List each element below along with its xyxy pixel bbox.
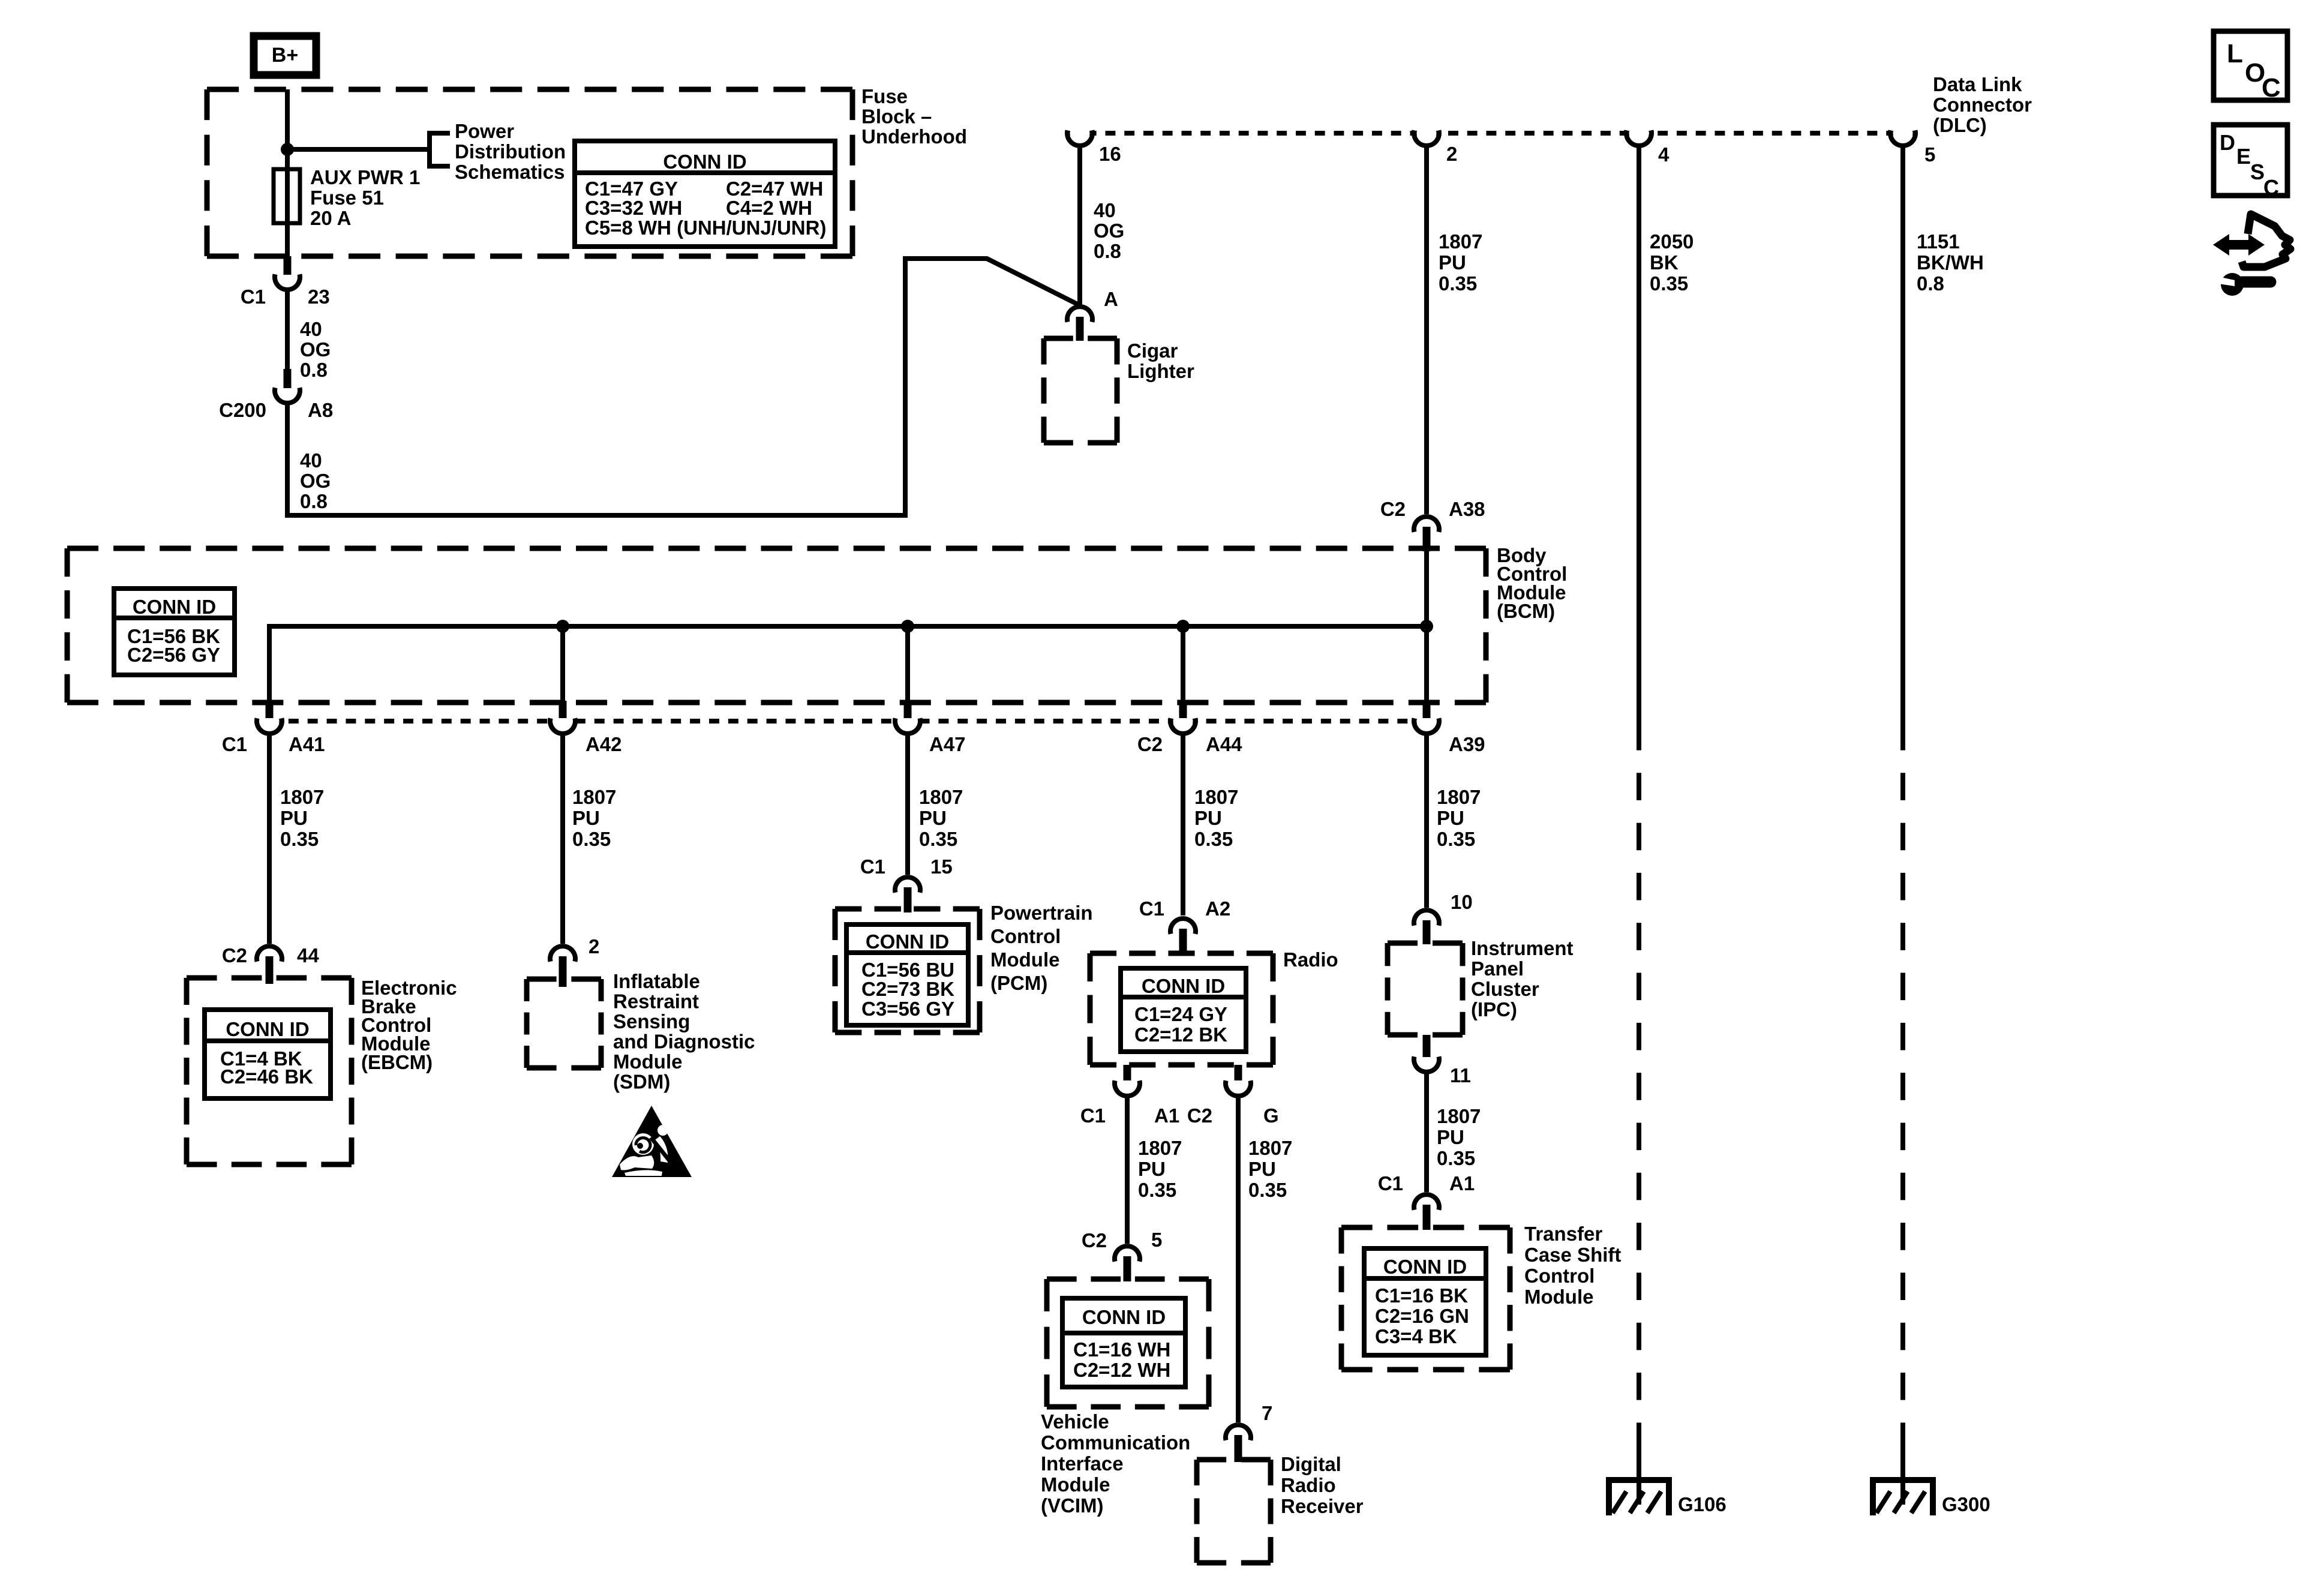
label Inflatable Restraint Sensing and Diagnostic Module (SDM) [613,970,755,1093]
label 40 OG 0.8 lower [300,449,331,512]
label 40 OG 0.8 upper [300,318,331,381]
svg-text:2: 2 [588,935,599,957]
data link connector face dotted line [1067,131,1915,136]
label 1807 PU 0.35 to DRR [1248,1137,1292,1201]
table CONN ID BCM [114,589,235,675]
table CONN ID EBCM [205,1010,331,1098]
svg-text:0.35: 0.35 [1194,828,1233,850]
svg-text:(SDM): (SDM) [613,1071,670,1093]
label Instrument Panel Cluster (IPC) [1471,937,1574,1020]
svg-text:1807: 1807 [1439,230,1482,253]
svg-text:0.8: 0.8 [300,490,328,512]
connector pin A cigar lighter [1067,288,1118,341]
instrument panel cluster dashed box [1388,943,1463,1035]
connector pin A42 [550,701,622,755]
connector pin 11 IPC out [1414,1035,1471,1086]
svg-text:L: L [2227,39,2243,68]
connector pin 7 DRR [1226,1402,1272,1462]
svg-text:23: 23 [308,286,330,308]
svg-text:Radio: Radio [1281,1474,1336,1496]
table CONN ID fuse block [575,141,835,247]
svg-text:PU: PU [919,807,947,829]
svg-text:Digital: Digital [1281,1453,1341,1475]
svg-text:1807: 1807 [1138,1137,1182,1159]
svg-text:C1: C1 [241,286,266,308]
digital radio receiver dashed box [1197,1460,1271,1563]
svg-text:PU: PU [1439,251,1466,274]
wire BCM drop A47 [905,626,910,701]
svg-text:CONN ID: CONN ID [1383,1256,1467,1278]
svg-text:CONN ID: CONN ID [226,1018,309,1040]
svg-text:Restraint: Restraint [613,990,699,1013]
connector C1 pin 23 [241,256,330,308]
svg-text:D: D [2220,130,2235,155]
cigar lighter dashed box [1044,338,1117,443]
connector C1 pin A1 radio out [1080,1065,1179,1127]
label 1807 PU 0.35 col IPC [1437,786,1481,850]
svg-text:7: 7 [1262,1402,1272,1424]
wire 40 OG routed to cigar lighter [287,259,1080,515]
svg-text:Distribution: Distribution [455,140,566,163]
wire 40 OG 0.8 pin 16 [1077,146,1082,305]
svg-text:C2=46 BK: C2=46 BK [220,1065,313,1088]
svg-text:A44: A44 [1206,733,1242,755]
wire 1807 PU 0.35 to VCIM [1125,1097,1130,1244]
svg-text:0.35: 0.35 [1437,1147,1475,1169]
label Powertrain Control Module (PCM) [990,902,1093,994]
wire 1807 PU 0.35 to DRR [1236,1097,1241,1422]
svg-text:Module: Module [990,948,1059,971]
fuse block - underhood dashed box [207,89,852,256]
svg-text:AUX PWR 1: AUX PWR 1 [310,166,420,188]
transfer case shift control module dashed box [1341,1227,1510,1370]
svg-text:2: 2 [1446,143,1457,165]
svg-text:1807: 1807 [280,786,324,808]
svg-text:Transfer: Transfer [1524,1223,1602,1245]
svg-text:A47: A47 [929,733,966,755]
BCM connector face dotted line [269,719,1427,724]
label 1807 PU 0.35 col SDM [572,786,616,850]
svg-text:Powertrain: Powertrain [990,902,1093,924]
svg-text:C3=4 BK: C3=4 BK [1375,1325,1457,1347]
svg-text:OG: OG [300,338,331,361]
svg-text:0.8: 0.8 [300,359,328,381]
svg-text:0.35: 0.35 [280,828,319,850]
svg-text:1151: 1151 [1917,230,1960,253]
svg-text:Cigar: Cigar [1127,340,1178,362]
svg-text:C2: C2 [1187,1104,1212,1127]
svg-text:0.8: 0.8 [1917,272,1944,295]
wire branch to power distribution schematics [287,147,428,152]
connector pin 10 IPC [1414,891,1473,944]
inflatable restraint SDM dashed box [527,979,601,1068]
bracket power distribution schematics [430,133,450,166]
svg-text:A8: A8 [308,399,333,421]
connector C2 pin A38 BCM [1380,498,1485,551]
svg-text:S: S [2250,160,2265,184]
svg-text:C1: C1 [1378,1172,1403,1194]
svg-text:0.35: 0.35 [1439,272,1477,295]
svg-text:2050: 2050 [1650,230,1694,253]
vehicle communication interface module dashed box [1047,1279,1209,1407]
connector C2 pin G radio out [1187,1065,1279,1127]
icon connector end view with wrench [2213,214,2290,296]
svg-text:Fuse 51: Fuse 51 [310,187,384,209]
connector C1 pin A2 Radio [1139,897,1230,956]
icon SRS caution triangle [612,1106,692,1177]
table CONN ID PCM [846,924,968,1025]
label 1151 BK/WH 0.8 [1917,230,1984,295]
svg-text:A1: A1 [1449,1172,1475,1194]
svg-text:C1: C1 [222,733,247,755]
junction node to power distribution [281,143,294,156]
label fuse AUX PWR 1 [310,166,420,229]
svg-text:PU: PU [1437,1126,1464,1148]
svg-text:C1: C1 [1139,897,1164,920]
svg-text:11: 11 [1450,1064,1471,1086]
svg-text:0.8: 0.8 [1094,240,1121,262]
svg-text:15: 15 [930,855,953,878]
svg-text:Underhood: Underhood [861,125,967,148]
svg-text:A41: A41 [289,733,325,755]
label Digital Radio Receiver [1281,1453,1364,1517]
svg-text:Case Shift: Case Shift [1524,1244,1621,1266]
label Body Control Module (BCM) [1497,544,1567,622]
connector pin A47 [895,701,966,755]
svg-text:Fuse: Fuse [861,85,908,107]
svg-text:1807: 1807 [1248,1137,1292,1159]
icon LOC box [2214,31,2287,103]
svg-text:44: 44 [297,944,319,966]
wire 1807 PU 0.35 to TCSCM [1424,1072,1429,1192]
wire BCM internal bus [269,626,1427,701]
electronic brake control module dashed box [187,978,352,1164]
svg-text:Cluster: Cluster [1471,978,1539,1000]
svg-text:C1=16 WH: C1=16 WH [1073,1338,1170,1361]
wire 1807 PU 0.35 col EBCM [267,734,272,944]
svg-text:Schematics: Schematics [455,161,565,183]
svg-text:B+: B+ [272,44,298,67]
radio dashed box [1090,953,1273,1065]
svg-text:0.35: 0.35 [1248,1179,1287,1201]
svg-text:PU: PU [1194,807,1222,829]
wire 1151 BK/WH 0.8 pin 5 [1900,146,1905,1505]
svg-text:C1=16 BK: C1=16 BK [1375,1284,1468,1307]
label 1807 PU 0.35 col Radio [1194,786,1238,850]
svg-text:and Diagnostic: and Diagnostic [613,1031,755,1053]
svg-text:(IPC): (IPC) [1471,998,1517,1020]
svg-text:CONN ID: CONN ID [1142,975,1225,997]
svg-text:Inflatable: Inflatable [613,970,700,992]
svg-text:C200: C200 [219,399,266,421]
svg-text:(EBCM): (EBCM) [361,1051,433,1073]
label Data Link Connector (DLC) [1933,73,2032,136]
label Radio [1283,948,1338,971]
svg-text:Sensing: Sensing [613,1010,690,1032]
svg-text:40: 40 [300,318,322,340]
svg-text:Power: Power [455,120,514,142]
svg-text:Panel: Panel [1471,957,1524,980]
svg-text:C5=8 WH (UNH/UNJ/UNR): C5=8 WH (UNH/UNJ/UNR) [585,217,826,239]
svg-text:Control: Control [990,925,1061,947]
svg-text:C2=12 BK: C2=12 BK [1134,1023,1227,1046]
table CONN ID VCIM [1062,1298,1185,1387]
connector C1 pin A41 [222,701,325,755]
wire BCM drop A44 [1181,626,1185,701]
wire B+ feed through fuse [285,89,290,256]
svg-text:0.35: 0.35 [1138,1179,1176,1201]
label Electronic Brake Control Module (EBCM) [361,977,457,1073]
svg-text:CONN ID: CONN ID [866,930,949,953]
wire 2050 BK 0.35 pin 4 [1637,146,1641,1505]
svg-text:5: 5 [1151,1229,1162,1251]
label 40 OG 0.8 pin 16 [1094,199,1124,262]
svg-text:Lighter: Lighter [1127,360,1194,382]
svg-text:PU: PU [1248,1158,1276,1180]
svg-text:C3=56 GY: C3=56 GY [861,998,954,1020]
svg-text:20 A: 20 A [310,207,351,229]
svg-text:Block –: Block – [861,106,932,128]
svg-text:Interface: Interface [1041,1452,1124,1475]
table CONN ID TCSCM [1364,1248,1486,1355]
DLC connector pin 2 [1414,124,1457,166]
svg-text:C1: C1 [1080,1104,1106,1127]
ground G106 [1606,1477,1727,1515]
svg-text:CONN ID: CONN ID [663,151,746,173]
svg-text:BK: BK [1650,251,1679,274]
label Fuse Block - Underhood [861,85,967,148]
svg-text:Radio: Radio [1283,948,1338,971]
svg-text:OG: OG [1094,220,1124,242]
svg-text:Connector: Connector [1933,94,2032,116]
svg-text:A: A [1104,288,1118,310]
label 1807 PU 0.35 col EBCM [280,786,324,850]
fuse AUX PWR 1 Fuse 51 20 A [274,169,300,223]
svg-text:C2=12 WH: C2=12 WH [1073,1359,1170,1381]
wire BCM drop A42 [560,626,565,701]
svg-text:C1=24 GY: C1=24 GY [1134,1003,1227,1025]
svg-text:OG: OG [300,470,331,492]
wire 1807 PU 0.35 col IPC [1424,734,1429,908]
label 2050 BK 0.35 [1650,230,1694,295]
svg-text:5: 5 [1924,143,1935,166]
connector pin A39 [1414,701,1485,755]
svg-text:CONN ID: CONN ID [1082,1306,1166,1328]
svg-text:1807: 1807 [1437,1105,1481,1127]
svg-text:Module: Module [1041,1473,1110,1496]
svg-text:PU: PU [1437,807,1464,829]
power node B+ [254,36,316,75]
connector C1 pin A1 TCSCM [1378,1172,1475,1230]
svg-text:G106: G106 [1678,1493,1727,1515]
svg-text:1807: 1807 [919,786,963,808]
svg-text:10: 10 [1451,891,1473,913]
wire 1807 PU 0.35 col PCM [905,734,910,875]
svg-text:A2: A2 [1205,897,1230,920]
junction dots BCM bus [556,620,1433,633]
svg-text:PU: PU [1138,1158,1166,1180]
svg-text:(DLC): (DLC) [1933,114,1987,136]
svg-text:C4=2 WH: C4=2 WH [726,197,812,219]
body control module dashed box [67,548,1486,703]
ground G300 [1870,1477,1990,1515]
svg-text:C2=73 BK: C2=73 BK [861,978,954,1000]
svg-text:E: E [2236,144,2251,169]
svg-text:PU: PU [572,807,600,829]
wire 1807 PU 0.35 pin 2 [1424,146,1429,514]
svg-text:Module: Module [613,1050,682,1073]
wire 40 OG 0.8 upper segment [285,290,290,370]
label Transfer Case Shift Control Module [1524,1223,1621,1308]
svg-text:C2: C2 [222,944,247,966]
wire BCM A38 to A39 [1424,549,1429,701]
connector C200 pin A8 [219,369,333,421]
svg-text:G300: G300 [1942,1493,1990,1515]
label Cigar Lighter [1127,340,1194,382]
svg-text:G: G [1263,1104,1279,1127]
label 1807 PU 0.35 to VCIM [1138,1137,1182,1201]
svg-text:C2: C2 [1082,1229,1107,1251]
svg-text:(VCIM): (VCIM) [1041,1494,1103,1517]
DLC connector pin 4 [1626,124,1670,166]
svg-text:C2=16 GN: C2=16 GN [1375,1305,1469,1327]
svg-text:0.35: 0.35 [919,828,957,850]
svg-text:Vehicle: Vehicle [1041,1410,1109,1433]
svg-text:0.35: 0.35 [1437,828,1475,850]
connector C2 pin 5 VCIM [1082,1229,1163,1281]
table CONN ID Radio [1121,968,1246,1052]
svg-text:16: 16 [1099,143,1121,165]
svg-text:4: 4 [1658,143,1670,166]
svg-text:40: 40 [300,449,322,472]
svg-text:C2: C2 [1137,733,1163,755]
svg-text:A1: A1 [1154,1104,1179,1127]
svg-text:Data Link: Data Link [1933,73,2022,95]
connector C1 pin 15 PCM [860,855,953,912]
wire 1807 PU 0.35 col Radio [1181,734,1185,915]
svg-text:A39: A39 [1449,733,1485,755]
label 1807 PU 0.35 pin 2 [1439,230,1482,295]
svg-text:C: C [2262,73,2281,103]
DLC connector pin 5 [1890,124,1935,166]
svg-text:C: C [2263,175,2279,200]
connector C2 pin 44 EBCM [222,944,320,984]
svg-text:C2: C2 [1380,498,1406,520]
svg-text:C1: C1 [860,855,885,878]
label Power Distribution Schematics [455,120,566,183]
label 1807 PU 0.35 to TCSCM [1437,1105,1481,1169]
svg-text:Module: Module [1524,1286,1593,1308]
icon DESC box [2214,125,2287,200]
label 1807 PU 0.35 col PCM [919,786,963,850]
svg-text:(BCM): (BCM) [1497,600,1555,622]
svg-text:A42: A42 [585,733,622,755]
connector pin 2 SDM [550,935,599,987]
svg-text:Receiver: Receiver [1281,1495,1364,1517]
svg-text:1807: 1807 [1194,786,1238,808]
svg-text:0.35: 0.35 [572,828,611,850]
svg-text:C2=56 GY: C2=56 GY [127,644,220,666]
svg-text:1807: 1807 [1437,786,1481,808]
svg-text:Instrument: Instrument [1471,937,1574,959]
connector C2 pin A44 [1137,701,1242,755]
label Vehicle Communication Interface Module (VCIM) [1041,1410,1190,1517]
svg-text:CONN ID: CONN ID [133,596,216,618]
powertrain control module dashed box [835,909,980,1032]
svg-text:1807: 1807 [572,786,616,808]
wire 1807 PU 0.35 col SDM [560,734,565,944]
svg-text:Control: Control [1524,1265,1595,1287]
svg-text:A38: A38 [1449,498,1485,520]
svg-text:C3=32 WH: C3=32 WH [585,197,682,219]
svg-text:BK/WH: BK/WH [1917,251,1984,274]
svg-text:40: 40 [1094,199,1116,221]
svg-text:PU: PU [280,807,308,829]
svg-text:(PCM): (PCM) [990,972,1047,994]
svg-text:0.35: 0.35 [1650,272,1688,295]
DLC connector pin 16 [1067,124,1121,166]
svg-text:Communication: Communication [1041,1431,1190,1454]
